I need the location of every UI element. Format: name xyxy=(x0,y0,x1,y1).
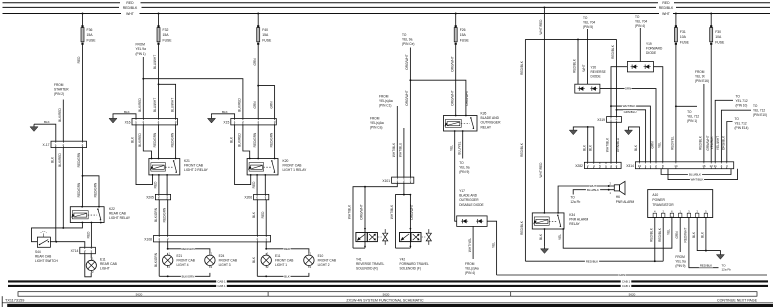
svg-text:X714: X714 xyxy=(71,249,79,253)
svg-text:(PIN 2): (PIN 2) xyxy=(54,92,64,96)
svg-text:DIODE: DIODE xyxy=(591,74,601,78)
wire branch to X15 pin3 xyxy=(258,86,274,119)
wire lamp rail BLK/GRN xyxy=(159,273,210,279)
svg-text:X206: X206 xyxy=(244,195,252,199)
svg-text:BLK/RED: BLK/RED xyxy=(138,132,142,146)
ground G5 xyxy=(625,128,633,135)
svg-text:RED/BLK: RED/BLK xyxy=(586,259,598,263)
svg-text:2: 2 xyxy=(662,209,664,213)
svg-text:YEL(s)Aa: YEL(s)Aa xyxy=(465,267,479,271)
wire A10 pin5 to TO ref xyxy=(684,218,719,268)
ground G6 xyxy=(541,246,549,253)
wire sol1 feed xyxy=(360,187,366,248)
wire CAB ground bus 2 xyxy=(8,284,768,288)
svg-text:SOLENOID (R): SOLENOID (R) xyxy=(356,267,378,271)
svg-text:RED/BLK: RED/BLK xyxy=(700,264,712,268)
svg-text:14: 14 xyxy=(674,164,678,168)
wire relay B to X206 pin1 xyxy=(264,175,266,195)
svg-text:2: 2 xyxy=(62,143,64,147)
wire X314 lower bus 2 xyxy=(668,169,738,182)
svg-text:3: 3 xyxy=(688,209,690,213)
svg-text:RED: RED xyxy=(261,211,265,218)
svg-text:Y19: Y19 xyxy=(646,42,652,46)
svg-text:1: 1 xyxy=(55,143,57,147)
svg-text:BLK: BLK xyxy=(252,211,256,218)
wire F31 to X314 xyxy=(671,48,677,162)
svg-text:RED/GRN: RED/GRN xyxy=(77,152,81,167)
svg-text:YEL: YEL xyxy=(449,145,453,151)
svg-text:RED/GRN: RED/GRN xyxy=(153,132,157,147)
node - harness band xyxy=(18,292,757,297)
svg-text:16: 16 xyxy=(702,164,706,168)
svg-text:TO: TO xyxy=(753,104,758,108)
connector X16 xyxy=(125,119,178,125)
wire left RED/BLK long xyxy=(520,39,525,261)
svg-text:2: 2 xyxy=(616,164,618,168)
lamp E11 xyxy=(86,257,117,275)
fuse F30 xyxy=(710,13,725,48)
svg-text:YEL(s)Aa: YEL(s)Aa xyxy=(370,121,384,125)
svg-text:1: 1 xyxy=(679,209,681,213)
svg-text:YEL: YEL xyxy=(658,142,662,148)
svg-text:LIGHT 4: LIGHT 4 xyxy=(177,263,189,267)
fuse F32 xyxy=(157,13,172,48)
svg-text:(PIN 5): (PIN 5) xyxy=(583,25,593,29)
svg-text:15A: 15A xyxy=(460,33,467,37)
svg-text:3: 3 xyxy=(410,179,412,183)
svg-text:RED/BLK: RED/BLK xyxy=(573,58,577,73)
fuse F26 xyxy=(454,13,469,48)
svg-text:1: 1 xyxy=(605,164,607,168)
wire F36 to X17 xyxy=(77,48,82,142)
connector X205 xyxy=(146,194,170,199)
svg-text:YEL 704: YEL 704 xyxy=(635,20,647,24)
wire G2 to X16 pin1 xyxy=(113,110,136,119)
svg-text:TO: TO xyxy=(635,15,640,19)
wire A10 pin4 from ref xyxy=(675,218,680,253)
svg-text:5620: 5620 xyxy=(136,292,143,296)
svg-text:2: 2 xyxy=(696,209,698,213)
svg-text:12a Fb: 12a Fb xyxy=(570,200,580,204)
svg-text:BLU/WHT: BLU/WHT xyxy=(170,98,174,112)
switch S44 xyxy=(35,232,58,264)
svg-text:WHT/BLK: WHT/BLK xyxy=(390,204,394,219)
svg-text:RED/GRN: RED/GRN xyxy=(181,247,194,251)
wire X314 lower bus 1 xyxy=(661,169,731,177)
svg-text:X101: X101 xyxy=(382,179,390,183)
svg-text:TRANSISTOR: TRANSISTOR xyxy=(652,203,674,207)
svg-text:X282: X282 xyxy=(575,164,583,168)
wire K26 to TO ref xyxy=(457,131,462,159)
svg-text:5: 5 xyxy=(705,209,707,213)
svg-text:YEL 712: YEL 712 xyxy=(753,109,765,113)
svg-text:FRONT CAB: FRONT CAB xyxy=(177,259,195,263)
svg-text:2: 2 xyxy=(167,237,169,241)
svg-text:BLK/GRN: BLK/GRN xyxy=(154,207,158,222)
svg-text:BLK/GRN: BLK/GRN xyxy=(154,252,158,267)
svg-text:FUSE: FUSE xyxy=(460,38,470,42)
svg-text:TX1173159: TX1173159 xyxy=(5,298,24,302)
svg-text:BLK: BLK xyxy=(131,136,135,143)
svg-text:RED/BLK: RED/BLK xyxy=(520,142,524,157)
svg-text:GRN: GRN xyxy=(675,231,679,239)
svg-text:BLK: BLK xyxy=(124,110,130,114)
wire sol2 rail xyxy=(390,195,410,249)
wire X108 return left xyxy=(154,242,159,276)
wire - RED/BLK power bus xyxy=(3,6,771,10)
wire Y19 left out xyxy=(610,67,627,117)
svg-text:1: 1 xyxy=(169,251,171,255)
svg-text:RED/GRN: RED/GRN xyxy=(77,182,81,197)
node - FROM label T4 xyxy=(379,95,393,108)
wire BLU/BLK speaker ref xyxy=(573,188,614,195)
svg-text:6: 6 xyxy=(671,209,673,213)
svg-text:CONTINUE NEXT PAGE: CONTINUE NEXT PAGE xyxy=(717,299,758,303)
svg-text:1: 1 xyxy=(610,191,612,195)
svg-text:WHT: WHT xyxy=(126,12,134,16)
wire WHT to speaker xyxy=(558,182,614,213)
svg-text:BLU/BLK: BLU/BLK xyxy=(689,173,701,177)
svg-text:RED: RED xyxy=(252,181,256,188)
svg-text:BLK: BLK xyxy=(539,233,543,240)
svg-text:2: 2 xyxy=(267,265,269,269)
svg-text:BLK/GRN: BLK/GRN xyxy=(182,274,195,278)
svg-text:STARTER: STARTER xyxy=(54,88,69,92)
svg-text:2: 2 xyxy=(84,249,86,253)
wire K26 to Y17 xyxy=(449,131,456,221)
relay K20 xyxy=(247,158,307,176)
relay K22 xyxy=(70,206,131,224)
wire X205 to X108 b xyxy=(162,200,167,236)
wire T8 to Y19 xyxy=(639,28,641,62)
wire switch feed bus xyxy=(32,223,83,242)
svg-text:S44: S44 xyxy=(35,250,41,254)
svg-text:A10: A10 xyxy=(652,193,658,197)
svg-text:TO: TO xyxy=(583,16,588,20)
fuse F31 xyxy=(674,13,689,48)
svg-text:FRONT CAB: FRONT CAB xyxy=(275,259,293,263)
svg-text:BLU/WHT: BLU/WHT xyxy=(153,98,157,112)
node - FROM label T1 xyxy=(136,43,147,56)
svg-text:REAR CAB: REAR CAB xyxy=(100,262,118,266)
svg-text:RED/BLK: RED/BLK xyxy=(658,227,662,242)
wire T5 to X101 pin2 xyxy=(399,128,404,177)
svg-text:BLK: BLK xyxy=(222,110,228,114)
diode Y20 xyxy=(575,66,606,94)
svg-text:RED/BLK: RED/BLK xyxy=(611,44,615,59)
svg-text:FORWARD TRAVEL: FORWARD TRAVEL xyxy=(400,262,430,266)
svg-text:FRONT CAB: FRONT CAB xyxy=(318,259,336,263)
connector X108 xyxy=(144,236,270,242)
wire X16 pin1 loop to relay A xyxy=(131,125,153,185)
svg-text:GRN: GRN xyxy=(625,87,631,91)
svg-text:ORG/WHT: ORG/WHT xyxy=(405,54,409,69)
svg-text:1: 1 xyxy=(396,179,398,183)
svg-text:(PIN 1): (PIN 1) xyxy=(136,52,146,56)
svg-text:CAB 1: CAB 1 xyxy=(622,284,631,288)
svg-text:RED/GRN: RED/GRN xyxy=(269,132,273,147)
svg-text:2: 2 xyxy=(242,120,244,124)
svg-text:(PIN E16): (PIN E16) xyxy=(695,79,709,83)
svg-text:LIGHT RELAY: LIGHT RELAY xyxy=(109,216,131,220)
wire junction to K22 right coil xyxy=(83,176,100,207)
svg-text:ORG/WHT: ORG/WHT xyxy=(450,56,454,71)
svg-text:1: 1 xyxy=(92,257,94,261)
wire X206 to X108 b xyxy=(261,200,266,236)
svg-text:YEL 704: YEL 704 xyxy=(583,21,595,25)
wire X108 return left 2 xyxy=(252,242,257,276)
svg-text:RED: RED xyxy=(662,1,670,5)
svg-text:BLK/RED: BLK/RED xyxy=(58,107,62,121)
wire lamp rail RED xyxy=(266,247,309,253)
svg-text:BLK: BLK xyxy=(589,144,593,151)
svg-text:WHT/BLK: WHT/BLK xyxy=(348,204,352,219)
wire X16 pin2 to relay A xyxy=(138,125,152,159)
svg-text:FUSE: FUSE xyxy=(163,38,173,42)
node - FROM STARTER label xyxy=(54,83,69,96)
svg-text:RED: RED xyxy=(154,181,158,188)
svg-text:YEL 9a: YEL 9a xyxy=(675,260,686,264)
connector X319 xyxy=(597,117,621,123)
svg-text:X205: X205 xyxy=(146,195,154,199)
svg-text:FROM: FROM xyxy=(695,70,705,74)
svg-text:FUSE: FUSE xyxy=(680,40,690,44)
svg-text:FROM: FROM xyxy=(465,262,475,266)
svg-text:DIODE: DIODE xyxy=(646,51,656,55)
connector X206 xyxy=(244,194,268,199)
fuse F40 xyxy=(257,13,272,48)
wire rail to Y20 xyxy=(573,39,578,84)
node - TO label T11 xyxy=(736,95,748,108)
svg-text:BLK: BLK xyxy=(229,136,233,143)
ground G2 xyxy=(109,116,117,123)
svg-text:3: 3 xyxy=(274,120,276,124)
svg-text:GRN/BLU: GRN/BLU xyxy=(624,110,637,114)
svg-text:4: 4 xyxy=(654,209,656,213)
svg-text:1: 1 xyxy=(310,251,312,255)
node - TO label T16 xyxy=(722,264,732,272)
svg-text:BLK: BLK xyxy=(51,156,55,163)
svg-text:WHT/RED: WHT/RED xyxy=(539,19,543,35)
svg-text:4: 4 xyxy=(616,118,618,122)
svg-text:3: 3 xyxy=(175,120,177,124)
svg-text:YEL(s)Aa: YEL(s)Aa xyxy=(379,99,393,103)
svg-text:X314: X314 xyxy=(626,164,634,168)
svg-text:RED/BLK: RED/BLK xyxy=(123,6,138,10)
wire F40 down to X15 xyxy=(253,48,259,119)
svg-text:2: 2 xyxy=(169,265,171,269)
svg-text:CAB 1: CAB 1 xyxy=(622,279,631,283)
svg-text:TO: TO xyxy=(570,196,575,200)
svg-text:K21: K21 xyxy=(184,159,190,163)
wire G4 to X282 b xyxy=(582,127,587,162)
svg-text:ORG/WHT: ORG/WHT xyxy=(410,204,414,219)
wire RED/BLK drop xyxy=(539,6,545,212)
svg-text:2: 2 xyxy=(655,164,657,168)
svg-text:8: 8 xyxy=(662,164,664,168)
svg-text:10A: 10A xyxy=(680,35,687,39)
wire Y20 out to X314 xyxy=(600,87,656,162)
svg-text:WHT: WHT xyxy=(662,12,670,16)
svg-text:TO: TO xyxy=(736,95,741,99)
ground G1 xyxy=(30,124,38,131)
svg-text:F36: F36 xyxy=(87,28,93,32)
svg-text:F40: F40 xyxy=(262,28,268,32)
svg-text:TO: TO xyxy=(735,117,740,121)
wire F32 down to X16 xyxy=(153,48,159,119)
svg-text:BLK: BLK xyxy=(701,231,705,238)
node - TO label T13 xyxy=(735,117,749,130)
svg-text:1: 1 xyxy=(211,251,213,255)
wire G4 to X282 xyxy=(573,126,594,162)
svg-text:FORWARD: FORWARD xyxy=(646,46,663,50)
svg-text:10A: 10A xyxy=(715,35,722,39)
svg-text:FRONT CAB: FRONT CAB xyxy=(184,164,204,168)
wire A10 pin1 down xyxy=(650,218,656,263)
svg-text:RELAY: RELAY xyxy=(569,222,580,226)
node - FROM label T15 xyxy=(675,255,686,268)
wire T2 down to X101 pin3 xyxy=(405,48,411,178)
svg-text:RED: RED xyxy=(126,1,134,5)
wire X319 to X282 a xyxy=(606,122,611,162)
svg-text:X319: X319 xyxy=(597,118,605,122)
svg-text:RED/GRN: RED/GRN xyxy=(253,132,257,147)
wire X314 to TO ref c xyxy=(722,122,733,162)
node - TO label T8 xyxy=(635,15,647,28)
svg-text:REAR CAB: REAR CAB xyxy=(35,255,51,259)
svg-text:LIGHT SWITCH: LIGHT SWITCH xyxy=(35,259,58,263)
svg-text:LIGHT: LIGHT xyxy=(100,267,110,271)
svg-text:BLK: BLK xyxy=(44,120,50,124)
svg-text:BLK: BLK xyxy=(692,231,696,238)
svg-text:BLADE AND: BLADE AND xyxy=(459,194,478,198)
wire X205 to X108 a xyxy=(154,200,159,236)
svg-text:3: 3 xyxy=(726,164,728,168)
svg-text:2: 2 xyxy=(211,265,213,269)
svg-text:H6: H6 xyxy=(616,195,620,199)
relay K26 xyxy=(444,112,502,132)
svg-text:CAB 1: CAB 1 xyxy=(217,279,226,283)
relay K34 PNR alarm xyxy=(532,212,588,230)
ground G7 xyxy=(716,252,724,259)
svg-text:YEL/BLK: YEL/BLK xyxy=(710,136,714,150)
wire X17 pin4 down with junction xyxy=(77,148,83,207)
wire X206 to X108 a xyxy=(252,200,257,236)
svg-text:GRN: GRN xyxy=(253,101,257,109)
wire A10 pin7 down xyxy=(701,218,706,251)
svg-text:ORG/WHT: ORG/WHT xyxy=(360,204,364,219)
wire - RED power bus xyxy=(3,1,771,5)
svg-text:GRN: GRN xyxy=(253,58,257,66)
svg-text:1: 1 xyxy=(267,251,269,255)
svg-text:PNR ALARM: PNR ALARM xyxy=(616,200,635,204)
connector X17 xyxy=(43,141,87,147)
node - title block border xyxy=(2,296,773,307)
svg-text:TO: TO xyxy=(687,110,692,114)
wire K34 YEL to A10 pin3 xyxy=(558,217,672,249)
svg-text:YEL 9t: YEL 9t xyxy=(695,75,705,79)
svg-text:GRN: GRN xyxy=(269,101,273,109)
wire branch to X16 pin3 xyxy=(159,84,176,118)
connector X101 xyxy=(382,177,413,183)
svg-text:RED: RED xyxy=(284,247,290,251)
node - drawing number TX1173159 xyxy=(5,298,24,302)
svg-text:LIGHT 2 RELAY: LIGHT 2 RELAY xyxy=(184,168,209,172)
svg-text:FROM: FROM xyxy=(675,255,685,259)
svg-text:RELAY: RELAY xyxy=(481,125,492,129)
svg-text:FUSE: FUSE xyxy=(87,38,97,42)
svg-text:RED/BLK: RED/BLK xyxy=(650,227,654,242)
connector X714 xyxy=(71,222,102,254)
svg-text:FUSE: FUSE xyxy=(262,38,272,42)
svg-text:E21: E21 xyxy=(177,254,183,258)
wire sol1 bottom xyxy=(353,247,365,249)
wire T4 to X101 pin1 xyxy=(392,106,397,177)
wire K34 to ground xyxy=(539,229,544,246)
svg-text:1: 1 xyxy=(166,195,168,199)
node - TO label T14 xyxy=(570,196,580,205)
svg-text:YEL: YEL xyxy=(491,242,495,248)
wire A10 pin6 pin7 to ground xyxy=(692,218,721,253)
svg-text:RED/BLK: RED/BLK xyxy=(699,135,703,150)
svg-text:BLK/RED: BLK/RED xyxy=(238,97,242,111)
svg-text:POWER: POWER xyxy=(652,198,665,202)
svg-text:2: 2 xyxy=(310,265,312,269)
svg-text:REVERSE: REVERSE xyxy=(591,70,606,74)
svg-text:BLK: BLK xyxy=(634,144,638,151)
wire X101 pin2 to sol2 rail xyxy=(403,183,405,195)
svg-text:OUTRIGGER: OUTRIGGER xyxy=(459,198,479,202)
svg-text:K34: K34 xyxy=(569,213,575,217)
svg-text:WHT: WHT xyxy=(582,64,586,71)
svg-text:1: 1 xyxy=(610,118,612,122)
svg-text:1: 1 xyxy=(234,120,236,124)
svg-text:F30: F30 xyxy=(715,30,721,34)
svg-text:ORG/WHT: ORG/WHT xyxy=(405,90,409,105)
node - TO label T2 xyxy=(402,33,414,46)
svg-text:YEL: YEL xyxy=(558,234,562,240)
svg-text:2: 2 xyxy=(256,195,258,199)
svg-text:FUSE: FUSE xyxy=(715,40,725,44)
svg-text:(PIN Ce): (PIN Ce) xyxy=(402,42,414,46)
wire CAB ground bus 1 xyxy=(8,279,768,283)
wire switch to X714 pin2 xyxy=(50,241,84,248)
wire X314 to TO ref b xyxy=(716,110,751,162)
wire Y17 to GRN rail xyxy=(487,221,497,275)
svg-text:BLK/RED: BLK/RED xyxy=(58,152,62,166)
svg-text:ORG/BLK: ORG/BLK xyxy=(722,135,726,150)
svg-text:1: 1 xyxy=(264,195,266,199)
svg-text:BLU/WHT: BLU/WHT xyxy=(153,55,157,69)
svg-text:DISABLE DIODE: DISABLE DIODE xyxy=(459,203,483,207)
svg-text:(PIN E14): (PIN E14) xyxy=(735,126,749,130)
svg-text:2: 2 xyxy=(142,120,144,124)
svg-text:RED/BLK: RED/BLK xyxy=(520,60,524,75)
svg-text:(PIN 10): (PIN 10) xyxy=(736,104,748,108)
wire sol2 feed xyxy=(410,194,414,248)
svg-text:5: 5 xyxy=(599,164,601,168)
wire E11 return loop xyxy=(85,254,91,277)
wire X101 pin1 to sol1 xyxy=(348,183,398,248)
connector X314 xyxy=(626,162,734,169)
svg-text:GRN: GRN xyxy=(619,273,625,277)
svg-text:RED/GRN: RED/GRN xyxy=(162,207,166,222)
wire X108 to E31 top xyxy=(265,242,267,250)
svg-text:(PIN 4): (PIN 4) xyxy=(465,271,475,275)
svg-text:X15: X15 xyxy=(223,120,229,124)
wire G5 to X314 xyxy=(629,127,640,162)
svg-text:TO: TO xyxy=(459,161,464,165)
